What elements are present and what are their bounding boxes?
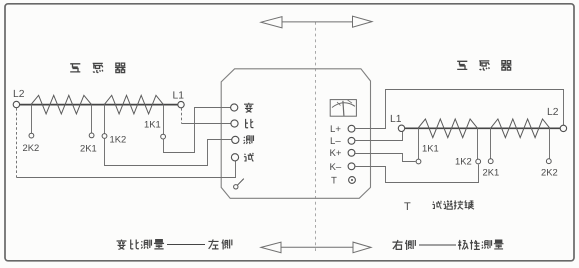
svg-text:L2: L2 [547,107,559,118]
terminal L1 (right CT) [398,125,404,131]
tap 1K1 (left CT) [163,105,165,135]
svg-text:2K2: 2K2 [541,167,558,178]
right CT winding line [405,127,561,129]
svg-text:L1: L1 [173,91,185,102]
terminal L2 (right CT) [560,125,566,131]
wire 1K2 to 测 terminal [105,138,232,165]
svg-text:1K1: 1K1 [422,143,439,154]
wire L- to L1 (right CT) [355,132,403,141]
wire L1 to 比 terminal [181,108,183,124]
tap 1K2 (right CT) [477,128,479,159]
terminal 比 [231,120,238,127]
svg-text:T: T [331,176,337,187]
terminal L2 (left CT) [13,101,19,107]
tap 1K1 (right CT) [418,128,420,159]
tap 1K2 (left CT) [104,105,106,134]
left CT winding line [20,104,178,106]
right CT zigzag section 1 [418,119,478,138]
label 互感器 (right) [457,61,511,70]
terminal L1 (left CT) [178,101,184,107]
terminal 试 [231,154,238,161]
tap 2K1 (right CT) [490,128,492,159]
right CT zigzag section 2 [491,119,550,138]
earthing switch [234,185,238,189]
top double-headed arrow [261,16,372,28]
svg-text:L2: L2 [13,89,25,100]
fold line (dashed centre) [315,22,317,252]
svg-text:1K2: 1K2 [455,156,472,167]
svg-text:2K1: 2K1 [80,143,97,154]
terminal 变 [231,104,238,111]
tap 2K2 (left CT) [31,105,33,134]
tester unit box (chamfered) [221,69,370,199]
wire L+ to L2 (right CT) [355,90,564,129]
bottom double-headed arrow [261,242,371,253]
svg-text:2K1: 2K1 [483,167,500,178]
svg-text:2K2: 2K2 [23,142,40,153]
terminal 测 [232,136,239,143]
tap 2K2 (right CT) [549,128,551,159]
caption 变比测量——左侧 [117,239,232,249]
wire 1K1 to 变 terminal [164,108,231,153]
left CT zigzag section 2 [104,95,163,114]
label 互感器 (left) [70,63,125,72]
left CT zigzag section 1 [31,95,92,114]
meter [330,100,356,117]
wire L2 to 试 terminal [16,108,18,178]
tap 2K1 (left CT) [91,105,93,133]
svg-text:1K1: 1K1 [144,119,161,130]
svg-text:T: T [404,201,411,213]
svg-text:K+: K+ [330,148,342,159]
wire K+ to 1K1 (right CT) [355,154,416,162]
svg-text:L–: L– [330,136,341,147]
labels 变比测试 [244,103,254,162]
caption 右侧——极性测量 [392,240,503,250]
svg-text:L1: L1 [390,114,402,125]
svg-text:L+: L+ [330,124,341,135]
wire K- to 1K2 (right CT) [355,165,479,183]
svg-text:1K2: 1K2 [110,134,127,145]
svg-text:K–: K– [330,162,342,173]
